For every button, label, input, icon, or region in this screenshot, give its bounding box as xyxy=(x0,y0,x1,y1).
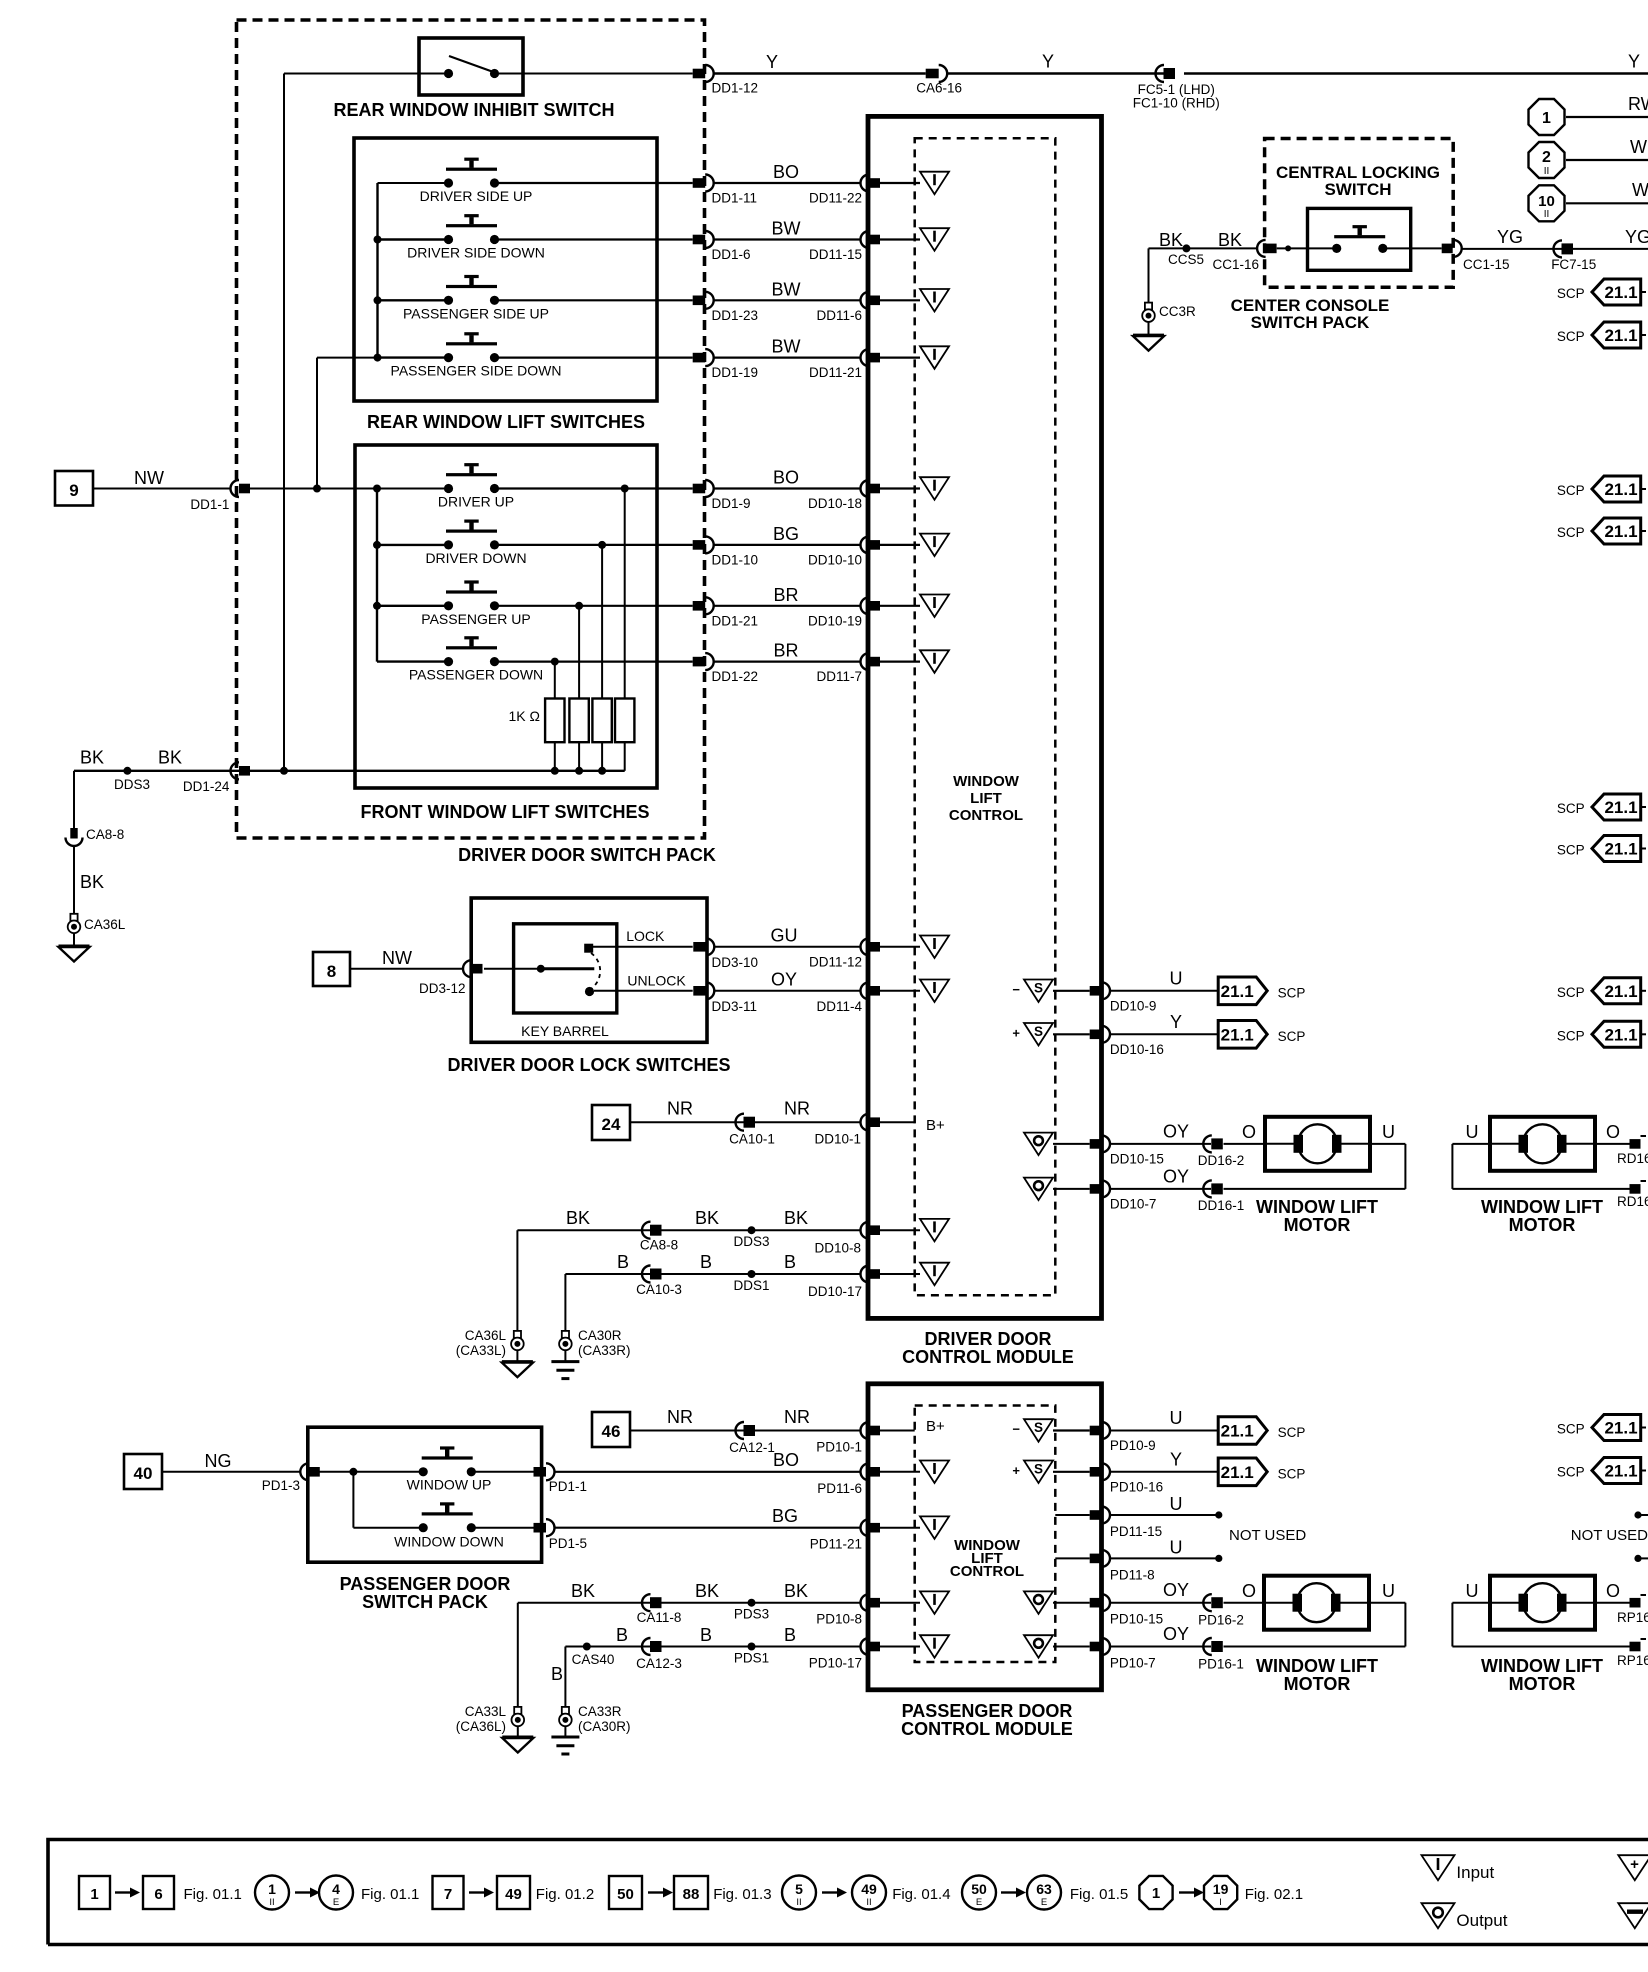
connector DD1-9 xyxy=(693,484,706,494)
svg-text:BR: BR xyxy=(773,641,798,661)
svg-text:DD11-6: DD11-6 xyxy=(816,308,862,323)
connector PD10-16 xyxy=(1090,1467,1102,1477)
svg-text:DD10-9: DD10-9 xyxy=(1110,998,1157,1013)
terminal box 8 xyxy=(313,952,350,986)
svg-text:NOT USED: NOT USED xyxy=(1229,1527,1306,1544)
ground (driver door switch pack) xyxy=(59,945,90,948)
svg-text:NR: NR xyxy=(667,1407,693,1427)
svg-text:CONTROL: CONTROL xyxy=(949,807,1023,824)
window lift motor (passenger door) xyxy=(1264,1576,1369,1630)
svg-text:(CA36L): (CA36L) xyxy=(456,1719,506,1734)
wire BK to CC1-16 xyxy=(1149,247,1258,249)
svg-text:CA10-1: CA10-1 xyxy=(729,1132,775,1147)
svg-text:B+: B+ xyxy=(926,1418,945,1435)
wire BW DD1-23 xyxy=(495,299,693,301)
svg-text:B: B xyxy=(551,1664,563,1684)
svg-text:S: S xyxy=(1034,1420,1043,1435)
input symbol DD11-4 xyxy=(920,980,949,1003)
wire resistor R3 bottom xyxy=(601,742,603,771)
svg-text:50: 50 xyxy=(971,1881,987,1897)
connector CA10-3 xyxy=(642,1266,651,1283)
output symbol DD10-7 xyxy=(1024,1178,1053,1201)
svg-text:BK: BK xyxy=(80,872,104,892)
wire U not used PD11-15 xyxy=(1110,1514,1219,1516)
wire resistor R1 bottom xyxy=(554,742,556,771)
wire W from octagon 2 xyxy=(1566,159,1648,161)
junction resistor bottoms xyxy=(551,767,559,775)
svg-text:DD1-21: DD1-21 xyxy=(712,613,759,628)
rear window inhibit switch box xyxy=(419,38,523,95)
svg-text:LIFT: LIFT xyxy=(970,790,1002,807)
wire DD10-9 triangle to module edge xyxy=(1053,990,1090,992)
svg-text:BK: BK xyxy=(566,1208,590,1228)
sheet tag 21.1 (DD10-9) xyxy=(1218,977,1267,1005)
sheet tag 21.1 (DD10-16) xyxy=(1218,1021,1267,1049)
svg-text:Fig. 01.5: Fig. 01.5 xyxy=(1070,1886,1128,1903)
passenger door switch pack box xyxy=(308,1427,542,1562)
svg-text:DD10-16: DD10-16 xyxy=(1110,1042,1164,1057)
svg-text:DD1-10: DD1-10 xyxy=(712,552,759,567)
svg-text:PD1-1: PD1-1 xyxy=(549,1479,587,1494)
svg-text:4: 4 xyxy=(332,1881,340,1897)
connector DD1-23 xyxy=(693,296,706,306)
connector DD10-18 xyxy=(861,480,869,497)
svg-text:DD1-23: DD1-23 xyxy=(712,308,759,323)
svg-text:PD16-2: PD16-2 xyxy=(1198,1613,1244,1628)
wire DD10-7 triangle to module edge xyxy=(1053,1188,1090,1190)
svg-text:BW: BW xyxy=(772,337,801,357)
svg-text:63: 63 xyxy=(1036,1881,1052,1897)
svg-text:CA12-1: CA12-1 xyxy=(729,1440,775,1455)
rear window lift switches box xyxy=(354,138,657,401)
rear switch: PASSENGER SIDE DOWN xyxy=(446,342,497,345)
front window lift switches box xyxy=(355,445,657,788)
svg-text:21.1: 21.1 xyxy=(1221,1422,1254,1441)
svg-text:CONTROL MODULE: CONTROL MODULE xyxy=(901,1719,1073,1739)
svg-text:CA10-3: CA10-3 xyxy=(636,1282,682,1297)
svg-text:CA12-3: CA12-3 xyxy=(636,1656,682,1671)
svg-text:NR: NR xyxy=(784,1099,810,1119)
svg-text:MOTOR: MOTOR xyxy=(1284,1674,1351,1694)
splice CAS40 xyxy=(583,1643,591,1651)
ground eyelet CC3R xyxy=(1145,303,1152,310)
svg-text:PD10-7: PD10-7 xyxy=(1110,1656,1156,1671)
wire stub DD11-4 xyxy=(880,990,920,992)
key barrel rotation arc (dashed) xyxy=(591,953,600,988)
terminal box 9 xyxy=(55,471,93,506)
svg-text:(CA33L): (CA33L) xyxy=(456,1343,506,1358)
rear switch: PASSENGER SIDE UP xyxy=(446,285,497,288)
wire O PD16-2 to motor xyxy=(1224,1602,1265,1604)
svg-text:I: I xyxy=(1219,1897,1222,1908)
svg-text:II: II xyxy=(1544,209,1550,220)
svg-text:FC7-15: FC7-15 xyxy=(1551,257,1596,272)
svg-text:PASSENGER SIDE UP: PASSENGER SIDE UP xyxy=(403,305,549,321)
svg-text:SCP: SCP xyxy=(1557,1028,1585,1043)
svg-text:U: U xyxy=(1382,1581,1395,1601)
wire resistor R3 top xyxy=(601,545,603,699)
connector CA11-8 xyxy=(642,1594,651,1611)
svg-text:Y: Y xyxy=(766,52,778,72)
svg-text:SCP: SCP xyxy=(1557,985,1585,1000)
junction resistor tap DD1-9 xyxy=(621,485,629,493)
central locking switch inner box xyxy=(1308,208,1411,270)
wire OY DD3-11 to DD11-4 xyxy=(715,990,862,992)
wire NW from 9 to DD1-1 xyxy=(93,488,231,490)
svg-text:SCP: SCP xyxy=(1278,985,1306,1000)
wire BW DD1-23 to DD11-6 xyxy=(713,299,862,301)
resistor R1 1K xyxy=(545,699,564,743)
svg-text:DDS3: DDS3 xyxy=(733,1234,769,1249)
connector PD1-1 xyxy=(534,1467,547,1477)
svg-text:DRIVER UP: DRIVER UP xyxy=(438,494,514,510)
svg-text:1: 1 xyxy=(1542,110,1551,127)
wire OY DD10-15 to DD16-2 xyxy=(1110,1143,1211,1145)
wire BR DD1-21 to DD10-19 xyxy=(713,605,862,607)
svg-text:PDS1: PDS1 xyxy=(734,1651,769,1666)
wire BW DD1-6 to DD11-15 xyxy=(713,238,862,240)
svg-text:II: II xyxy=(1544,166,1550,177)
svg-text:PASSENGER SIDE DOWN: PASSENGER SIDE DOWN xyxy=(391,363,562,379)
svg-text:SCP: SCP xyxy=(1557,843,1585,858)
connector DD10-9 xyxy=(1090,986,1102,996)
wire BK down to ground xyxy=(73,771,75,828)
wire BK passenger xyxy=(518,1602,651,1604)
svg-text:DRIVER DOOR SWITCH PACK: DRIVER DOOR SWITCH PACK xyxy=(458,845,716,865)
connector CC1-16 xyxy=(1257,240,1266,257)
svg-text:Fig. 01.3: Fig. 01.3 xyxy=(713,1886,771,1903)
svg-text:Fig. 01.2: Fig. 01.2 xyxy=(536,1886,594,1903)
driver door switch pack boundary (dashed) xyxy=(237,20,705,838)
svg-text:CC1-15: CC1-15 xyxy=(1463,257,1510,272)
wire Y from rear window inhibit switch to right edge xyxy=(713,72,926,74)
svg-text:BK: BK xyxy=(1218,230,1242,250)
connector FC5-1 (LHD) / FC1-10 (RHD) xyxy=(1156,65,1164,82)
wire to chassis ground CA33R xyxy=(564,1726,566,1737)
svg-text:W: W xyxy=(1630,137,1647,157)
connector DD11-22 xyxy=(861,175,869,192)
wire O to RP16 (passenger right) xyxy=(1595,1602,1630,1604)
wire branch to window down xyxy=(352,1472,354,1528)
svg-text:BK: BK xyxy=(784,1581,808,1601)
svg-text:WINDOW LIFT: WINDOW LIFT xyxy=(1256,1197,1378,1217)
svg-text:U: U xyxy=(1170,1494,1183,1514)
sheet tag 21.1 (PD10-9) xyxy=(1218,1417,1267,1445)
wire U motor loop (driver left) xyxy=(1370,1143,1405,1145)
ground eyelet CA33R (CA30R) xyxy=(562,1707,569,1714)
wire window down to PD1-5 xyxy=(471,1527,534,1529)
svg-text:SCP: SCP xyxy=(1557,525,1585,540)
wire to ground symbol xyxy=(73,933,75,946)
svg-text:88: 88 xyxy=(683,1886,700,1903)
svg-text:U: U xyxy=(1466,1122,1479,1142)
input symbol PD11-6 xyxy=(920,1461,949,1484)
wire O DD16-2 to left motor xyxy=(1224,1143,1266,1145)
svg-text:CA30R: CA30R xyxy=(578,1328,622,1343)
wire stub DD11-12 xyxy=(880,946,920,948)
wire PD10-16 triangle to module edge xyxy=(1053,1471,1090,1473)
connector PD10-8 xyxy=(861,1594,869,1611)
input symbol DD11-12 xyxy=(920,936,949,959)
input symbol at DD11-15 xyxy=(920,228,949,251)
connector PD1-3 xyxy=(300,1463,309,1480)
connector PD10-9 xyxy=(1090,1426,1102,1436)
svg-text:DD10-10: DD10-10 xyxy=(808,552,862,567)
svg-text:21.1: 21.1 xyxy=(1604,1025,1637,1044)
svg-text:OY: OY xyxy=(1163,1624,1189,1644)
svg-text:DD10-1: DD10-1 xyxy=(814,1132,861,1147)
wire BG PD1-5 to PD11-21 xyxy=(555,1527,862,1529)
legend item squares 50-88 Fig 01.3 xyxy=(609,1876,642,1909)
junction resistor tap DD1-21 xyxy=(575,602,583,610)
svg-text:DRIVER DOWN: DRIVER DOWN xyxy=(425,550,526,566)
svg-text:BO: BO xyxy=(773,1450,799,1470)
svg-text:PD1-5: PD1-5 xyxy=(549,1536,587,1551)
connector DD1-24 xyxy=(231,762,240,779)
svg-text:PD11-6: PD11-6 xyxy=(817,1481,862,1496)
junction on front bus row 1 xyxy=(373,485,381,493)
connector PD10-17 xyxy=(861,1638,869,1655)
svg-text:MOTOR: MOTOR xyxy=(1509,1215,1576,1235)
wire B down to CA33R xyxy=(564,1647,566,1707)
svg-text:NR: NR xyxy=(784,1407,810,1427)
unlock contact xyxy=(585,987,594,996)
svg-text:SCP: SCP xyxy=(1557,1422,1585,1437)
wire YG CC1-15 to FC7-15 xyxy=(1462,248,1562,250)
wire resistor R1 top xyxy=(554,662,556,699)
wire resistor R4 top xyxy=(624,489,626,699)
svg-text:BK: BK xyxy=(695,1581,719,1601)
input symbol at DD11-22 xyxy=(920,172,949,195)
input symbol at DD10-10 xyxy=(920,534,949,557)
wire to ground CC3R xyxy=(1148,321,1150,335)
wire BK down to CA33L xyxy=(517,1603,519,1707)
connector RP16-2 pin xyxy=(1630,1598,1641,1608)
svg-text:CA6-16: CA6-16 xyxy=(916,81,962,96)
svg-text:FRONT WINDOW LIFT SWITCHES: FRONT WINDOW LIFT SWITCHES xyxy=(361,802,650,822)
chassis ground (CA30R) xyxy=(551,1360,579,1363)
passenger switch: WINDOW DOWN xyxy=(422,1512,473,1515)
svg-text:O: O xyxy=(1242,1122,1256,1142)
splice CCS5 xyxy=(1182,244,1190,252)
connector PD11-21 xyxy=(861,1519,869,1536)
svg-text:RP16-2: RP16-2 xyxy=(1617,1610,1648,1625)
output symbol PD10-7 xyxy=(1024,1635,1053,1658)
svg-text:NG: NG xyxy=(205,1451,232,1471)
wire to ground CA33L xyxy=(517,1726,519,1737)
resistor R3 1K xyxy=(592,699,611,743)
svg-text:21.1: 21.1 xyxy=(1221,982,1254,1001)
wire from rear passenger-side-down to NW node xyxy=(317,357,378,359)
connector FC7-15 xyxy=(1554,240,1563,257)
svg-text:DD11-7: DD11-7 xyxy=(816,669,862,684)
input symbol DD10-17 xyxy=(920,1263,949,1286)
svg-text:S: S xyxy=(1034,980,1043,995)
lock contact xyxy=(584,944,593,953)
svg-text:DD11-21: DD11-21 xyxy=(809,365,862,380)
wire stub PD11-21 xyxy=(880,1527,920,1529)
svg-text:Y: Y xyxy=(1170,1449,1182,1469)
wire BK to module xyxy=(517,1229,650,1231)
svg-text:S: S xyxy=(1034,1024,1043,1039)
inhibit switch blade xyxy=(449,56,492,72)
connector DD16-1 xyxy=(1203,1180,1212,1197)
svg-text:21.1: 21.1 xyxy=(1221,1463,1254,1482)
svg-text:DRIVER SIDE UP: DRIVER SIDE UP xyxy=(420,188,533,204)
connector DD11-12 xyxy=(861,938,869,955)
ground (CA33L) xyxy=(502,1736,533,1739)
input symbol at DD11-7 xyxy=(920,650,949,673)
svg-text:OY: OY xyxy=(1163,1580,1189,1600)
wire BK down to CA36L ground xyxy=(516,1230,518,1331)
wire NR from 46 to CA12-1 xyxy=(630,1430,744,1432)
svg-text:DD10-7: DD10-7 xyxy=(1110,1196,1157,1211)
wire BR DD1-22 to DD11-7 xyxy=(713,660,862,662)
svg-text:PASSENGER DOOR: PASSENGER DOOR xyxy=(902,1701,1073,1721)
wire U to SCP tag xyxy=(1110,1430,1218,1432)
connector DD10-15 xyxy=(1090,1139,1102,1149)
wire stub PD11-6 xyxy=(880,1471,920,1473)
wire NW inside switch pack xyxy=(249,488,449,490)
rear switches common bus wire xyxy=(376,183,378,358)
junction resistor tap DD1-22 xyxy=(551,658,559,666)
wire switch to CC1-15 xyxy=(1383,247,1442,249)
wire DD10-15 triangle to module edge xyxy=(1053,1143,1090,1145)
output symbol DD10-15 xyxy=(1024,1133,1053,1156)
svg-text:GU: GU xyxy=(771,926,798,946)
svg-text:Y: Y xyxy=(1170,1012,1182,1032)
legend item circles 1/II-4/E Fig 01.1 xyxy=(255,1876,289,1910)
svg-text:DD11-15: DD11-15 xyxy=(809,247,862,262)
wire PD10-9 triangle to module edge xyxy=(1053,1429,1090,1431)
svg-text:CA11-8: CA11-8 xyxy=(637,1610,682,1625)
svg-text:Y: Y xyxy=(1628,52,1640,72)
svg-text:SCP: SCP xyxy=(1557,329,1585,344)
svg-text:9: 9 xyxy=(69,481,78,500)
svg-text:2: 2 xyxy=(1542,149,1551,166)
svg-text:21.1: 21.1 xyxy=(1604,1462,1637,1481)
wire from inhibit switch down to BK bus xyxy=(283,74,285,771)
svg-text:II: II xyxy=(866,1897,871,1908)
svg-text:CC3R: CC3R xyxy=(1159,304,1196,319)
svg-text:BW: BW xyxy=(772,219,801,239)
svg-text:Fig. 01.1: Fig. 01.1 xyxy=(361,1886,419,1903)
junction NW / rear-switch branch xyxy=(313,485,321,493)
not-used endpoint PD11-8 xyxy=(1215,1555,1222,1562)
key barrel common junction xyxy=(537,965,545,973)
front switches common bus wire xyxy=(376,489,378,662)
svg-text:DD11-12: DD11-12 xyxy=(809,955,862,970)
wire U loop (driver right motor) xyxy=(1452,1143,1490,1145)
wire B down to CA30R ground xyxy=(564,1274,566,1331)
svg-text:OY: OY xyxy=(771,970,797,990)
branch junction window switches xyxy=(349,1468,357,1476)
connector PD10-7 xyxy=(1090,1642,1102,1652)
connector DD1-12 xyxy=(693,69,706,79)
svg-text:E: E xyxy=(1041,1897,1047,1908)
svg-text:5: 5 xyxy=(795,1881,803,1897)
svg-text:+: + xyxy=(1630,1856,1639,1873)
wire Y to SCP tag xyxy=(1110,1471,1218,1473)
wire BK bottom bus xyxy=(74,770,625,772)
wire U to SCP tag xyxy=(1110,990,1218,992)
svg-text:II: II xyxy=(796,1897,801,1908)
wire window up to PD1-1 xyxy=(471,1471,534,1473)
connector CA6-16 xyxy=(926,69,939,79)
wire BR DD1-22 xyxy=(495,660,693,662)
svg-text:U: U xyxy=(1170,1408,1183,1428)
driver door lock switches box xyxy=(471,898,707,1042)
connector DD11-6 xyxy=(861,292,869,309)
svg-text:SCP: SCP xyxy=(1557,801,1585,816)
svg-text:WINDOW UP: WINDOW UP xyxy=(407,1477,492,1493)
svg-text:MOTOR: MOTOR xyxy=(1284,1215,1351,1235)
wire PD10-15 triangle to module edge xyxy=(1053,1602,1090,1604)
svg-text:BG: BG xyxy=(773,524,799,544)
connector DD1-10 xyxy=(693,540,706,550)
junction resistor tap DD1-10 xyxy=(598,541,606,549)
legend minus symbol xyxy=(1618,1903,1648,1928)
window lift motor (driver, right side) xyxy=(1490,1117,1595,1171)
svg-text:KEY BARREL: KEY BARREL xyxy=(521,1023,609,1039)
connector octagon 2 xyxy=(1529,142,1565,178)
wire NR from 24 to CA10-1 xyxy=(630,1121,744,1123)
svg-text:DD10-17: DD10-17 xyxy=(808,1284,862,1299)
svg-text:21.1: 21.1 xyxy=(1604,480,1637,499)
svg-text:49: 49 xyxy=(505,1886,522,1903)
svg-text:SWITCH: SWITCH xyxy=(1324,180,1391,199)
svg-text:DDS1: DDS1 xyxy=(733,1278,769,1293)
wire stub into module row DD10-19 xyxy=(880,605,920,607)
not-used wire right 2 xyxy=(1638,1557,1648,1559)
legend item octagons 1-19 Fig 02.1 xyxy=(1139,1876,1172,1909)
svg-text:DD16-1: DD16-1 xyxy=(1198,1198,1245,1213)
connector DD10-7 xyxy=(1090,1184,1102,1194)
connector DD1-22 xyxy=(693,657,706,667)
wire stub DD10-8 xyxy=(880,1229,920,1231)
svg-text:Output: Output xyxy=(1456,1911,1507,1930)
inhibit switch contacts xyxy=(444,69,453,78)
wire stub PD10-17 xyxy=(880,1646,920,1648)
svg-text:DD1-24: DD1-24 xyxy=(183,779,230,794)
svg-text:7: 7 xyxy=(444,1886,452,1903)
svg-text:1: 1 xyxy=(90,1886,98,1903)
rear switch: DRIVER SIDE DOWN xyxy=(446,224,497,227)
svg-text:B+: B+ xyxy=(926,1117,945,1134)
svg-text:49: 49 xyxy=(861,1881,877,1897)
svg-text:DRIVER DOOR LOCK SWITCHES: DRIVER DOOR LOCK SWITCHES xyxy=(447,1055,730,1075)
wire U loop (passenger right motor) xyxy=(1452,1602,1490,1604)
svg-text:YG: YG xyxy=(1625,227,1648,247)
wire NG inside pack xyxy=(318,1471,423,1473)
window lift motor (driver door) xyxy=(1265,1117,1370,1171)
svg-text:+: + xyxy=(1012,1025,1020,1040)
svg-text:PASSENGER UP: PASSENGER UP xyxy=(421,611,530,627)
connector RD16-1 pin xyxy=(1630,1184,1641,1194)
wire BW DD1-6 xyxy=(495,238,693,240)
svg-text:FC1-10 (RHD): FC1-10 (RHD) xyxy=(1133,96,1220,111)
svg-text:DD11-4: DD11-4 xyxy=(816,999,862,1014)
connector CA12-1 xyxy=(736,1422,745,1439)
input symbol at DD11-21 xyxy=(920,346,949,369)
wire NW from 8 to DD3-12 xyxy=(350,968,463,970)
connector DD3-10 xyxy=(693,942,706,952)
wire BW DD1-19 xyxy=(495,357,693,359)
svg-text:BG: BG xyxy=(772,1506,798,1526)
svg-text:BK: BK xyxy=(1159,230,1183,250)
svg-text:SCP: SCP xyxy=(1278,1466,1306,1481)
wire stub into module row DD11-22 xyxy=(880,182,920,184)
